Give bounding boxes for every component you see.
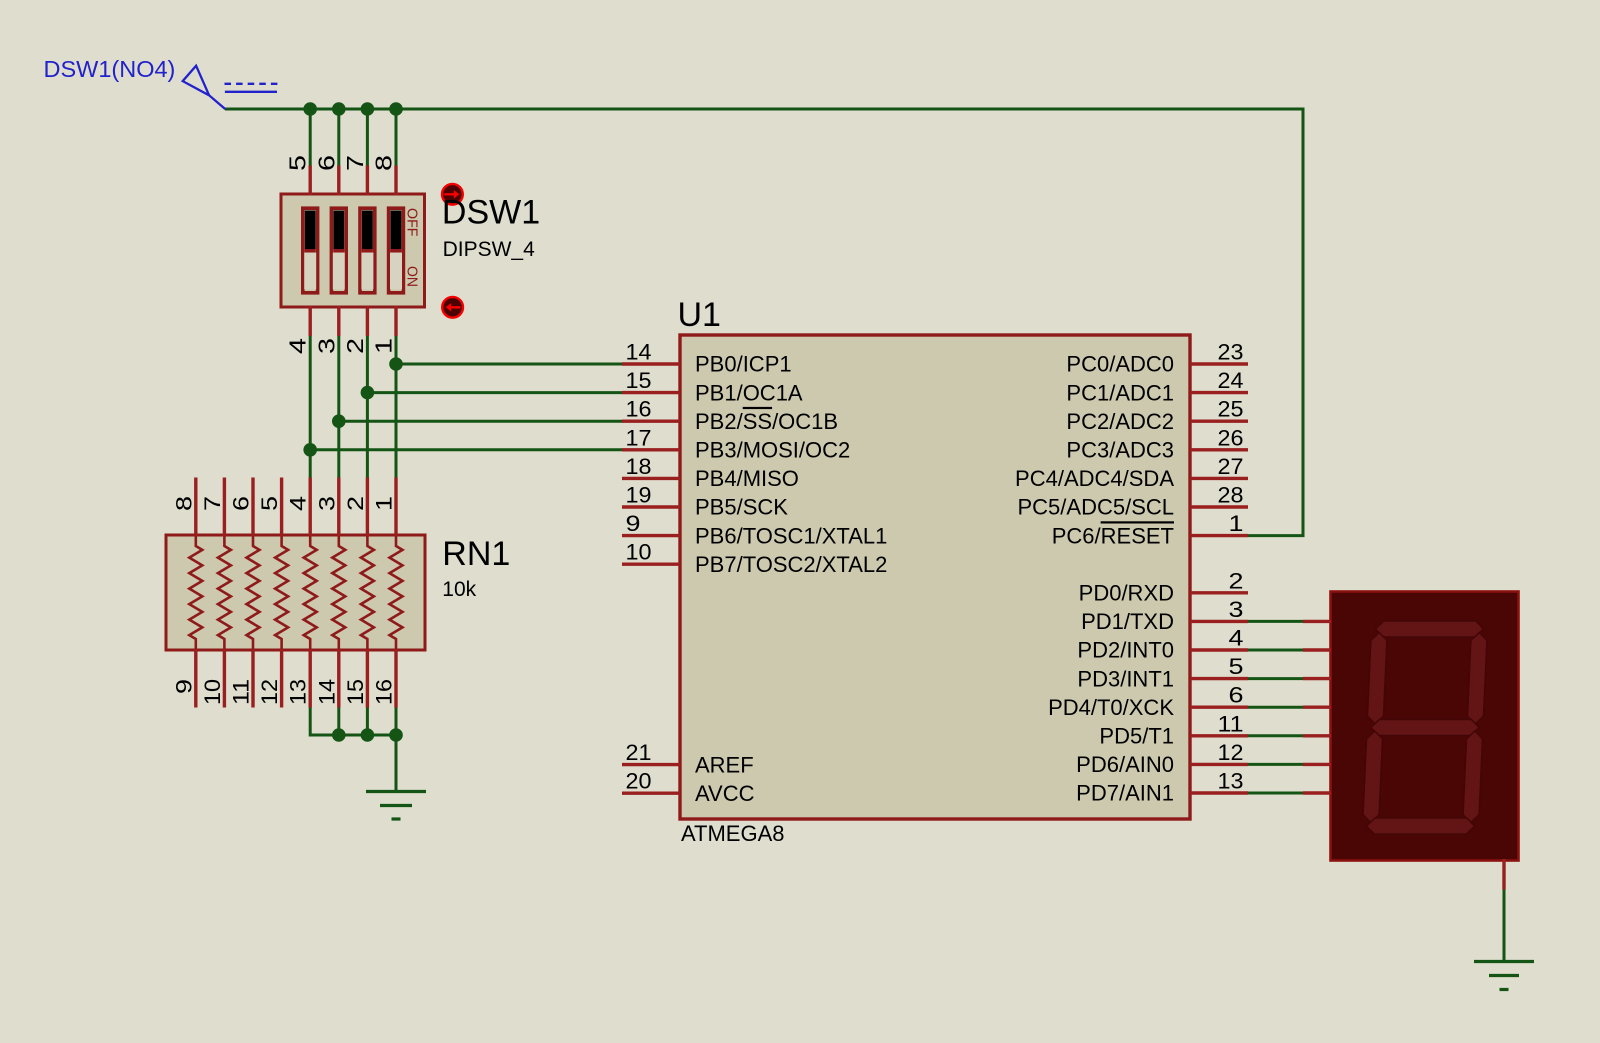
- svg-text:3: 3: [314, 496, 339, 511]
- svg-text:PB0/ICP1: PB0/ICP1: [695, 352, 792, 377]
- DSW1 pin 6 stub: [337, 166, 340, 196]
- display pin stub 5: [1303, 734, 1331, 737]
- DSW1 pin 1 stub: [394, 306, 397, 336]
- resistor element R4 of RN1: [275, 537, 288, 649]
- wire RN1 pin14 to ground bus: [337, 708, 340, 736]
- svg-text:16: 16: [372, 679, 397, 705]
- U1 right pin 4 stub: [1190, 648, 1248, 651]
- dip switch DSW1 slider 3: [360, 208, 375, 293]
- svg-text:5: 5: [285, 155, 311, 171]
- U1 right pin 2 stub: [1190, 591, 1248, 594]
- wire node to U1 pin 16 (PB2): [339, 420, 623, 423]
- resistor network RN1 body: [166, 535, 425, 650]
- RN1 top pin 5 stub: [280, 478, 283, 537]
- U1 right pin 13 stub: [1190, 791, 1248, 794]
- dip switch DSW1 slider 2: [331, 208, 346, 293]
- svg-text:PC4/ADC4/SDA: PC4/ADC4/SDA: [1015, 466, 1174, 491]
- ground symbol left: [366, 792, 426, 820]
- svg-text:AVCC: AVCC: [695, 781, 755, 806]
- svg-text:3: 3: [313, 338, 339, 354]
- U1 right pin 11 stub: [1190, 734, 1248, 737]
- display pin stub 2: [1303, 648, 1331, 651]
- wire display common pin down to ground: [1503, 890, 1506, 962]
- U1 left pin 20 stub: [622, 792, 680, 795]
- svg-text:PD7/AIN1: PD7/AIN1: [1076, 781, 1174, 806]
- svg-text:PC0/ADC0: PC0/ADC0: [1066, 352, 1174, 377]
- U1 right pin 28 stub: [1190, 505, 1248, 508]
- ground symbol right: [1474, 962, 1534, 990]
- U1 left pin 16 stub: [622, 420, 680, 423]
- svg-text:14: 14: [314, 679, 339, 705]
- junction dot bus pin16: [389, 728, 403, 742]
- wire RN1 pin15 to ground bus: [366, 708, 369, 736]
- display segment A (top): [1375, 621, 1483, 637]
- RN1 top pin 2 stub: [366, 478, 369, 537]
- wire node to U1 pin 17 (PB3): [310, 448, 623, 451]
- wire from DSW1 pin 2 down to RN1: [366, 336, 369, 478]
- svg-text:PD2/INT0: PD2/INT0: [1077, 638, 1174, 663]
- svg-text:PD6/AIN0: PD6/AIN0: [1076, 752, 1174, 777]
- U1 right pin 6 stub: [1190, 706, 1248, 709]
- U1 left pin 14 stub: [622, 362, 680, 365]
- svg-text:25: 25: [1218, 397, 1244, 422]
- junction dot col-4 to pin17 wire: [303, 443, 317, 457]
- svg-text:16: 16: [626, 397, 652, 422]
- wire RN1 pin13 down to ground bus: [309, 708, 312, 737]
- DSW1 pin 7 stub: [366, 166, 369, 196]
- svg-text:PD0/RXD: PD0/RXD: [1079, 581, 1174, 606]
- resistor element R5 of RN1: [304, 537, 317, 649]
- U1 right pin 25 stub: [1190, 420, 1248, 423]
- display pin stub 4: [1303, 706, 1331, 709]
- U1 left pin 15 stub: [622, 391, 680, 394]
- resistor element R2 of RN1: [218, 537, 231, 649]
- svg-text:PC6/RESET: PC6/RESET: [1052, 523, 1174, 548]
- svg-text:AREF: AREF: [695, 752, 754, 777]
- svg-text:8: 8: [371, 155, 397, 171]
- svg-text:7: 7: [342, 155, 368, 171]
- RN1 top pin 1 stub: [394, 478, 397, 537]
- junction dot on top bus: [389, 102, 403, 116]
- DSW1 actuator button down (left arrow): [442, 297, 463, 318]
- U1 right pin 3 stub: [1190, 620, 1248, 623]
- display pin stub 3: [1303, 677, 1331, 680]
- svg-text:PC5/ADC5/SCL: PC5/ADC5/SCL: [1017, 495, 1174, 520]
- svg-text:19: 19: [626, 483, 652, 508]
- RN1 bottom pin 9 stub: [194, 649, 197, 708]
- svg-text:20: 20: [626, 769, 652, 794]
- U1 left pin 21 stub: [622, 763, 680, 766]
- junction dot bus pin14: [332, 728, 346, 742]
- wire U1 right pin row y=621.4 to display: [1248, 620, 1303, 623]
- RN1 bottom pin 16 stub: [394, 649, 397, 708]
- display segment C (bottom-right): [1463, 731, 1482, 823]
- wire RN1 pin16 to ground bus: [395, 708, 398, 736]
- U1 right pin 12 stub: [1190, 763, 1248, 766]
- U1 left pin 18 stub: [622, 477, 680, 480]
- wire right vertical down to pin1 row: [1302, 108, 1305, 536]
- svg-text:PC3/ADC3: PC3/ADC3: [1066, 438, 1174, 463]
- wire from top bus down to DSW1 pin 7: [366, 109, 369, 166]
- DSW1 pin 2 stub: [366, 306, 369, 336]
- RN1 top pin 6 stub: [251, 478, 254, 537]
- DSW1 pin 5 stub: [309, 166, 312, 196]
- svg-text:9: 9: [626, 511, 641, 536]
- svg-text:10: 10: [200, 679, 225, 705]
- svg-text:10: 10: [626, 540, 652, 565]
- microcontroller U1 body: [680, 335, 1190, 819]
- svg-text:15: 15: [343, 679, 368, 705]
- svg-text:DSW1: DSW1: [442, 194, 540, 232]
- svg-text:11: 11: [229, 679, 254, 705]
- RN1 bottom pin 10 stub: [223, 649, 226, 708]
- svg-text:12: 12: [257, 679, 282, 705]
- resistor element R1 of RN1: [189, 537, 202, 649]
- svg-text:PB5/SCK: PB5/SCK: [695, 495, 788, 520]
- DSW1 pin 3 stub: [337, 306, 340, 336]
- svg-text:4: 4: [1229, 626, 1244, 651]
- dip switch DSW1 slider 4: [389, 208, 404, 293]
- junction dot on top bus: [332, 102, 346, 116]
- wire node to U1 pin 14 (PB0): [396, 363, 623, 366]
- svg-text:PB2/SS/OC1B: PB2/SS/OC1B: [695, 409, 838, 434]
- svg-text:PC1/ADC1: PC1/ADC1: [1066, 380, 1174, 405]
- svg-text:PB7/TOSC2/XTAL2: PB7/TOSC2/XTAL2: [695, 552, 887, 577]
- display pin stub 7: [1303, 791, 1331, 794]
- svg-text:4: 4: [286, 496, 311, 511]
- U1 right pin 23 stub: [1190, 362, 1248, 365]
- svg-text:PB6/TOSC1/XTAL1: PB6/TOSC1/XTAL1: [695, 523, 887, 548]
- svg-text:PD3/INT1: PD3/INT1: [1077, 666, 1174, 691]
- svg-text:6: 6: [229, 496, 254, 511]
- DSW1 pin 4 stub: [309, 306, 312, 336]
- junction dot col-3 to pin16 wire: [332, 414, 346, 428]
- svg-text:11: 11: [1218, 711, 1244, 736]
- svg-text:2: 2: [343, 496, 368, 511]
- display segment G (middle): [1371, 720, 1479, 736]
- wire node to U1 pin 15 (PB1): [367, 391, 623, 394]
- resistor element R3 of RN1: [247, 537, 260, 649]
- U1 right pin 27 stub: [1190, 477, 1248, 480]
- RN1 top pin 7 stub: [223, 478, 226, 537]
- resistor element R7 of RN1: [361, 537, 374, 649]
- svg-text:4: 4: [285, 338, 311, 354]
- svg-text:6: 6: [313, 155, 339, 171]
- svg-text:6: 6: [1229, 683, 1244, 708]
- svg-text:18: 18: [626, 454, 652, 479]
- display common pin stub: [1502, 859, 1505, 890]
- junction dot on top bus: [361, 102, 375, 116]
- svg-text:13: 13: [1218, 769, 1244, 794]
- svg-text:12: 12: [1218, 740, 1244, 765]
- U1 right pin 1 stub: [1190, 534, 1248, 537]
- DSW1 actuator button up (right arrow): [442, 184, 463, 205]
- svg-text:5: 5: [257, 496, 282, 511]
- RN1 bottom pin 13 stub: [309, 649, 312, 708]
- svg-text:1: 1: [1229, 511, 1244, 536]
- svg-text:ATMEGA8: ATMEGA8: [681, 821, 785, 846]
- junction dot bus pin15: [361, 728, 375, 742]
- U1 left pin 17 stub: [622, 448, 680, 451]
- U1 right pin 26 stub: [1190, 448, 1248, 451]
- wire U1 right pin row y=793.0 to display: [1248, 792, 1303, 795]
- wire U1 right pin row y=650.0 to display: [1248, 649, 1303, 652]
- svg-text:21: 21: [626, 740, 652, 765]
- svg-text:28: 28: [1218, 483, 1244, 508]
- svg-text:10k: 10k: [442, 578, 476, 601]
- svg-text:15: 15: [626, 368, 652, 393]
- svg-text:RN1: RN1: [442, 535, 510, 573]
- svg-text:14: 14: [626, 340, 652, 365]
- junction dot col-2 to pin15 wire: [361, 386, 375, 400]
- wire top horizontal from switch to right vertical: [225, 108, 1303, 111]
- svg-text:PD1/TXD: PD1/TXD: [1081, 609, 1174, 634]
- dip switch DSW1 body: [281, 194, 425, 307]
- U1 left pin 19 stub: [622, 505, 680, 508]
- svg-text:8: 8: [171, 496, 196, 511]
- RN1 bottom pin 12 stub: [280, 649, 283, 708]
- RN1 top pin 4 stub: [309, 478, 312, 537]
- svg-text:26: 26: [1218, 425, 1244, 450]
- wire bus down to ground symbol: [395, 735, 398, 792]
- svg-text:PB4/MISO: PB4/MISO: [695, 466, 799, 491]
- svg-text:PC2/ADC2: PC2/ADC2: [1066, 409, 1174, 434]
- display pin stub 6: [1303, 763, 1331, 766]
- svg-text:2: 2: [1229, 568, 1244, 593]
- svg-text:1: 1: [372, 496, 397, 511]
- resistor element R6 of RN1: [332, 537, 345, 649]
- display segment B (top-right): [1468, 633, 1487, 725]
- svg-text:5: 5: [1229, 654, 1244, 679]
- resistor element R8 of RN1: [390, 537, 403, 649]
- U1 right pin 24 stub: [1190, 391, 1248, 394]
- RN1 bottom pin 15 stub: [366, 649, 369, 708]
- RN1 bottom pin 14 stub: [337, 649, 340, 708]
- wire U1 right pin row y=678.6 to display: [1248, 677, 1303, 680]
- svg-text:1: 1: [371, 338, 397, 354]
- display segment E (bottom-left): [1363, 731, 1382, 823]
- svg-text:17: 17: [626, 425, 652, 450]
- display pin stub 1: [1303, 620, 1331, 623]
- U1 left pin 9 stub: [622, 534, 680, 537]
- RN1 top pin 8 stub: [194, 478, 197, 537]
- display segment F (top-left): [1368, 633, 1387, 725]
- svg-text:7: 7: [200, 496, 225, 511]
- wire from top bus down to DSW1 pin 8: [395, 109, 398, 166]
- svg-text:23: 23: [1218, 340, 1244, 365]
- DSW1 pin 8 stub: [394, 166, 397, 196]
- seven segment display body: [1331, 592, 1519, 861]
- svg-text:U1: U1: [678, 296, 721, 334]
- wire into PC6/RESET pin 1: [1248, 534, 1305, 537]
- wire from top bus down to DSW1 pin 6: [337, 109, 340, 166]
- ground bus horizontal under RN1: [310, 734, 396, 737]
- wire U1 right pin row y=735.8 to display: [1248, 734, 1303, 737]
- svg-text:3: 3: [1229, 597, 1244, 622]
- svg-text:DIPSW_4: DIPSW_4: [443, 238, 536, 261]
- svg-text:13: 13: [286, 679, 311, 705]
- wire from top bus down to DSW1 pin 5: [309, 109, 312, 166]
- wire from DSW1 pin 4 down to RN1: [309, 336, 312, 478]
- wire from DSW1 pin 1 down to RN1: [395, 336, 398, 478]
- svg-text:PD4/T0/XCK: PD4/T0/XCK: [1048, 695, 1174, 720]
- junction dot col-1 to pin14 wire: [389, 357, 403, 371]
- wire U1 right pin row y=707.2 to display: [1248, 706, 1303, 709]
- U1 right pin 5 stub: [1190, 677, 1248, 680]
- svg-text:ON: ON: [404, 266, 421, 287]
- RN1 top pin 3 stub: [337, 478, 340, 537]
- svg-text:24: 24: [1218, 368, 1244, 393]
- blue switch lever symbol: [183, 66, 278, 109]
- wire U1 right pin row y=764.4 to display: [1248, 763, 1303, 766]
- RN1 bottom pin 11 stub: [251, 649, 254, 708]
- svg-text:PB1/OC1A: PB1/OC1A: [695, 380, 803, 405]
- svg-text:27: 27: [1218, 454, 1244, 479]
- svg-text:PB3/MOSI/OC2: PB3/MOSI/OC2: [695, 438, 850, 463]
- display segment D (bottom): [1367, 818, 1475, 834]
- U1 left pin 10 stub: [622, 563, 680, 566]
- svg-text:PD5/T1: PD5/T1: [1099, 724, 1174, 749]
- svg-text:9: 9: [171, 679, 196, 694]
- dip switch DSW1 slider 1: [303, 208, 318, 293]
- junction dot on top bus: [303, 102, 317, 116]
- wire from DSW1 pin 3 down to RN1: [337, 336, 340, 478]
- svg-text:OFF: OFF: [404, 208, 421, 237]
- svg-text:2: 2: [342, 338, 368, 354]
- svg-text:DSW1(NO4): DSW1(NO4): [44, 56, 176, 82]
